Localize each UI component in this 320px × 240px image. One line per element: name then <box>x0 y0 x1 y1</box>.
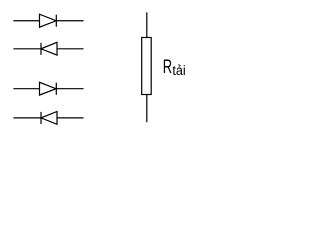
wire: diode D2 anode lead <box>57 48 84 50</box>
diode D3 (pointing right) <box>40 82 57 95</box>
wire: diode D4 anode lead <box>57 117 84 119</box>
svg-text:R: R <box>163 57 172 78</box>
value label: R tải <box>163 57 186 78</box>
diode D4 (pointing left) <box>41 112 57 125</box>
wire: diode D3 anode lead <box>13 88 39 90</box>
wire: diode D3 cathode lead <box>56 88 83 90</box>
diode D1 (pointing right) <box>40 14 57 27</box>
wire: resistor Rtai top lead <box>146 12 148 37</box>
wire: diode D4 cathode lead <box>13 117 41 119</box>
resistor Rtai (body) <box>142 38 152 95</box>
wire: resistor Rtai bottom lead <box>146 95 148 123</box>
svg-text:tải: tải <box>172 62 185 78</box>
wire: diode D1 cathode lead <box>56 20 83 22</box>
wire: diode D2 cathode lead <box>13 48 41 50</box>
diode D2 (pointing left) <box>41 42 57 55</box>
wire: diode D1 anode lead <box>13 20 39 22</box>
